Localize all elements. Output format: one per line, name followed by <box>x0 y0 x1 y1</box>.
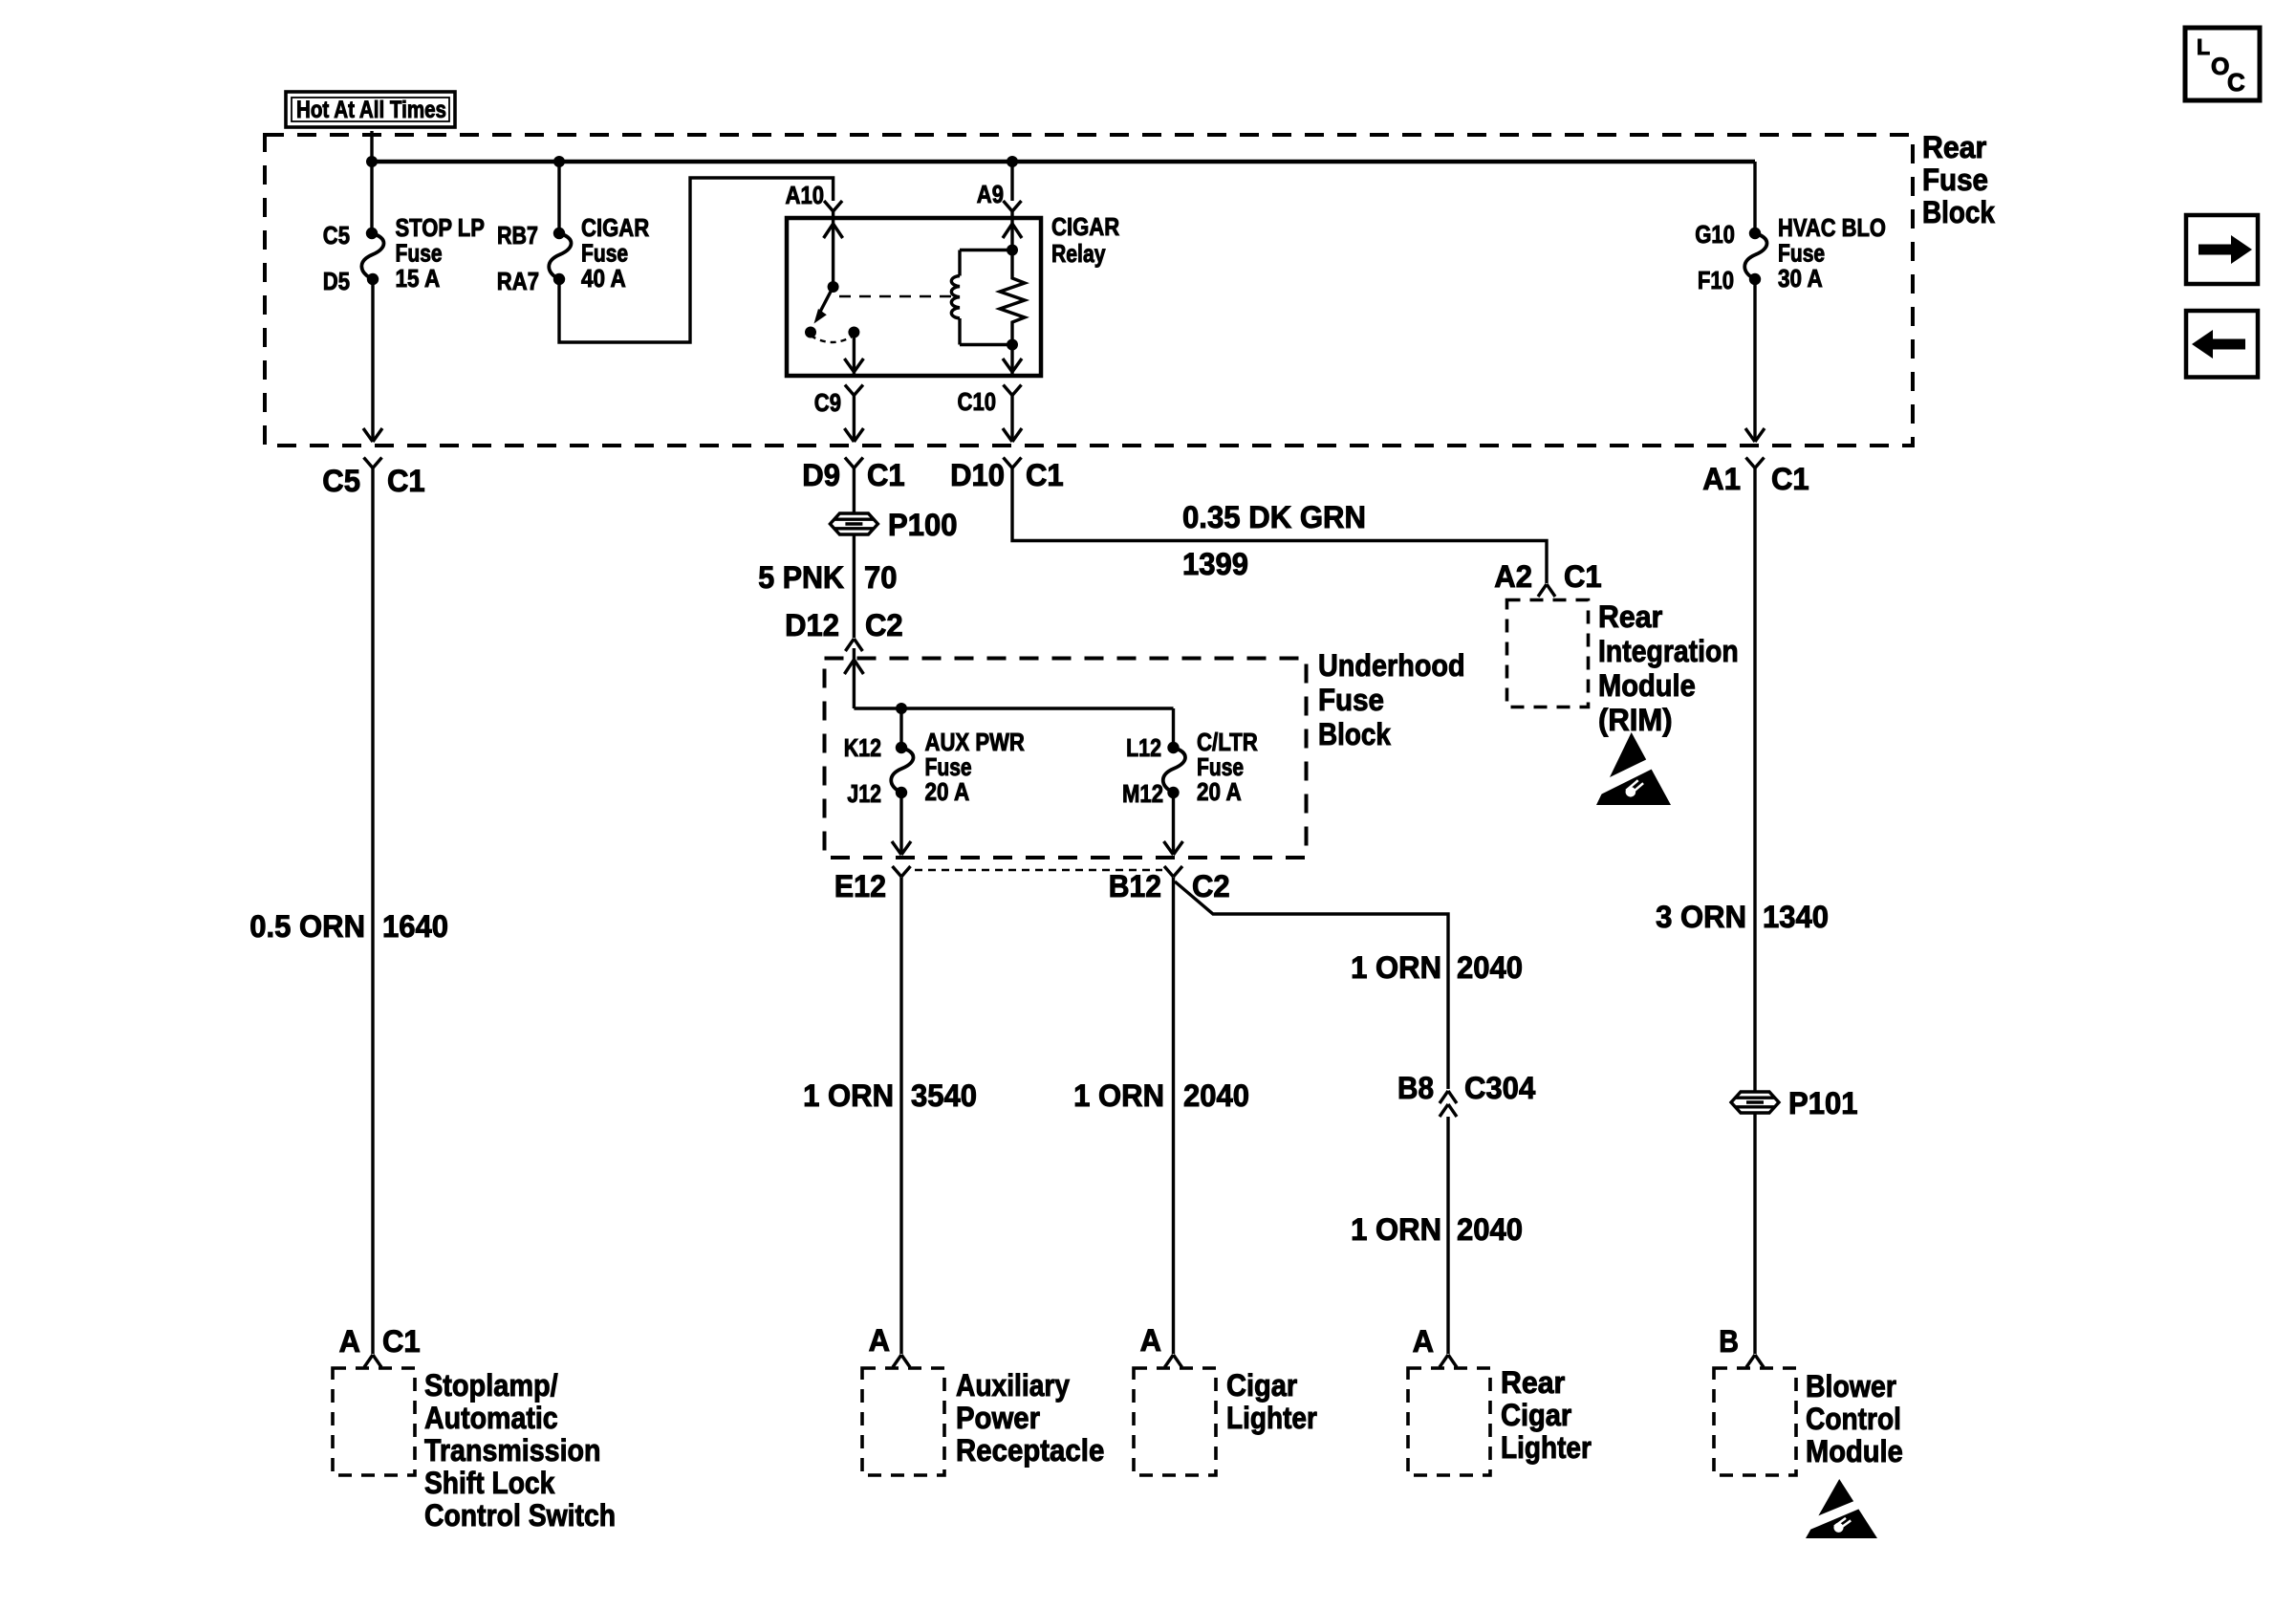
svg-text:D9: D9 <box>802 458 840 492</box>
svg-text:Cigar: Cigar <box>1501 1398 1571 1432</box>
svg-text:Fuse: Fuse <box>1922 163 1988 197</box>
svg-text:Module: Module <box>1598 668 1696 703</box>
connector C1 row: A1 terminal <box>1746 458 1756 468</box>
arrow: exit Rear Fuse Block (A1 column) <box>1745 428 1755 442</box>
svg-text:L12: L12 <box>1126 733 1161 762</box>
svg-text:Integration: Integration <box>1598 634 1739 668</box>
svg-text:Rear: Rear <box>1501 1365 1565 1400</box>
symbol: ESD sensitive device (RIM) <box>1594 732 1671 805</box>
svg-text:B: B <box>1719 1324 1739 1359</box>
svg-text:2040: 2040 <box>1457 950 1523 985</box>
fuse: CIGAR Fuse 40 A (RB7/RA7) <box>549 233 571 279</box>
connector: E12 terminal <box>893 866 902 877</box>
svg-text:30 A: 30 A <box>1778 264 1823 293</box>
wire: stub from Hot At All Times into fuse block <box>370 131 373 162</box>
component: Stoplamp switch connector row <box>339 1324 421 1359</box>
node: junction at AUX PWR fuse <box>896 703 907 714</box>
label: Underhood Fuse Block <box>1318 648 1465 751</box>
arrow: exit Rear Fuse Block (C9 column) <box>844 428 854 442</box>
wire label: 1 ORN 2040 (cigar lighter) <box>1073 1078 1249 1113</box>
wire: HVAC BLO fuse output down to block edge <box>1753 279 1756 442</box>
arrow: exit Rear Fuse Block (C5 column) <box>363 428 373 442</box>
relay internal: dashed throw arc <box>811 336 854 342</box>
boundary: dotted link between E12 and B12 <box>915 869 1162 871</box>
svg-text:Transmission: Transmission <box>424 1433 601 1468</box>
arrow: exit underhood block (B12) <box>1164 841 1174 855</box>
svg-text:Auxiliary: Auxiliary <box>956 1368 1070 1403</box>
power source label box: Hot At All Times <box>286 92 455 127</box>
wire: power bus inside Rear Fuse Block <box>372 160 1755 164</box>
svg-text:0.5 ORN: 0.5 ORN <box>249 909 365 944</box>
svg-text:Fuse: Fuse <box>1318 683 1384 717</box>
label: AUX PWR Fuse 20 A <box>925 728 1026 806</box>
connector: A10 terminal <box>824 201 834 211</box>
wire: AUX PWR output to block edge <box>899 793 902 855</box>
svg-text:HVAC BLO: HVAC BLO <box>1778 213 1886 242</box>
svg-text:D12: D12 <box>785 608 839 642</box>
svg-text:1399: 1399 <box>1182 547 1248 581</box>
svg-text:Fuse: Fuse <box>581 239 628 268</box>
svg-text:C5: C5 <box>322 464 360 498</box>
svg-text:A: A <box>339 1324 360 1359</box>
svg-text:Fuse: Fuse <box>1778 239 1825 268</box>
arrow: exit Rear Fuse Block (C10 column) <box>1003 428 1012 442</box>
wire: B12 column 1 ORN 2040 down to cigar lighter <box>1172 878 1175 1355</box>
svg-text:Receptacle: Receptacle <box>956 1433 1104 1468</box>
wire: bus drop to CIGAR fuse <box>557 162 560 233</box>
label: Stoplamp/Automatic Transmission Shift Lock Control Switch <box>424 1368 616 1533</box>
label: HVAC BLO Fuse 30 A <box>1778 213 1886 293</box>
splice P100 <box>830 513 877 534</box>
svg-text:Fuse: Fuse <box>396 239 443 268</box>
relay internal: coil L1 <box>951 276 960 318</box>
svg-text:C1: C1 <box>1564 559 1602 594</box>
icon: back arrow box <box>2186 311 2258 378</box>
relay internal: switch pivot node <box>828 281 839 293</box>
svg-text:C1: C1 <box>1771 462 1809 496</box>
wire: C9 down to block edge <box>853 396 856 443</box>
wire: CIGAR fuse output jog to relay pin A10 <box>559 178 834 342</box>
arrow: exit underhood block (E12) <box>892 841 901 855</box>
svg-text:3 ORN: 3 ORN <box>1656 900 1746 934</box>
svg-text:Stoplamp/: Stoplamp/ <box>424 1368 558 1403</box>
relay internal: coil branch wires <box>960 249 1012 251</box>
svg-text:A: A <box>1413 1324 1434 1359</box>
relay internal: switch contact nodes <box>805 327 816 338</box>
svg-text:P100: P100 <box>888 508 958 542</box>
connector C1 row: C5 terminal <box>364 458 374 468</box>
wire: D9 to splice P100 <box>853 468 856 514</box>
label: Blower Control Module <box>1806 1369 1903 1469</box>
svg-text:Rear: Rear <box>1922 130 1986 164</box>
svg-text:CIGAR: CIGAR <box>581 213 649 242</box>
svg-text:Rear: Rear <box>1598 599 1662 634</box>
wire: bus end drop to HVAC BLO fuse <box>1753 162 1756 233</box>
splice P101 <box>1731 1092 1779 1113</box>
svg-text:P101: P101 <box>1788 1086 1858 1120</box>
connector: A9 terminal <box>1004 201 1013 211</box>
connector C1 row: D9 terminal <box>845 458 855 468</box>
svg-text:D10: D10 <box>950 458 1005 492</box>
svg-text:J12: J12 <box>847 779 881 808</box>
svg-text:Cigar: Cigar <box>1226 1368 1297 1403</box>
svg-text:CIGAR: CIGAR <box>1051 212 1119 241</box>
svg-text:C2: C2 <box>1192 869 1230 903</box>
svg-text:20 A: 20 A <box>1197 777 1242 806</box>
svg-text:K12: K12 <box>844 733 881 762</box>
wire label: 3 ORN 1340 <box>1656 900 1829 934</box>
svg-text:Lighter: Lighter <box>1501 1430 1592 1465</box>
wire: bus drop to STOP LP fuse <box>370 162 373 233</box>
svg-text:C1: C1 <box>387 464 425 498</box>
wire: A1 column down to splice P101 <box>1753 468 1756 1093</box>
connector: D12/C2 into Underhood Fuse Block <box>785 608 903 642</box>
wire: C304 down to rear cigar lighter <box>1446 1117 1449 1354</box>
wire: D12 feed into underhood block <box>853 648 856 708</box>
svg-text:1 ORN: 1 ORN <box>803 1078 894 1113</box>
relay internal: coil top node <box>1007 245 1018 256</box>
wire label: 1 ORN 2040 (upper rear branch) <box>1351 950 1523 985</box>
svg-text:1 ORN: 1 ORN <box>1351 950 1441 985</box>
svg-text:G10: G10 <box>1695 220 1735 249</box>
relay internal: C10 output wire and arrow <box>1010 345 1013 377</box>
icon: LOC reference box <box>2185 28 2260 100</box>
wire: underhood internal feed bus <box>854 707 1173 709</box>
svg-text:1 ORN: 1 ORN <box>1073 1078 1164 1113</box>
label: C/LTR Fuse 20 A <box>1197 728 1258 806</box>
wire: bus drop to relay pin A9 <box>1010 162 1013 201</box>
wire label: 1 ORN 3540 <box>803 1078 977 1113</box>
svg-text:C1: C1 <box>1026 458 1064 492</box>
label: Rear Integration Module (RIM) <box>1598 599 1739 737</box>
fuse: AUX PWR Fuse 20 A (K12/J12) <box>891 748 913 793</box>
relay internal: coil bottom node <box>1007 339 1018 351</box>
svg-text:A1: A1 <box>1702 462 1741 496</box>
connector C1 row: D10 terminal <box>1004 458 1013 468</box>
wire label: 5 PNK 70 <box>758 560 897 595</box>
wire: left column 0.5 ORN 1640 down to stoplamp switch <box>371 468 374 1354</box>
svg-text:5 PNK: 5 PNK <box>758 560 844 595</box>
label: Rear Cigar Lighter <box>1501 1365 1592 1465</box>
wire: C/LTR output to block edge <box>1172 793 1175 855</box>
svg-text:C304: C304 <box>1464 1071 1535 1105</box>
svg-text:C9: C9 <box>814 388 841 417</box>
svg-text:A10: A10 <box>786 181 825 209</box>
svg-text:C5: C5 <box>323 221 350 250</box>
fuse: HVAC BLO Fuse 30 A (G10/F10) <box>1744 233 1766 279</box>
wire: A9 into relay box <box>1010 211 1013 218</box>
svg-text:RB7: RB7 <box>497 221 538 250</box>
svg-text:Power: Power <box>956 1401 1040 1435</box>
wire: branch from B12 to rear cigar lighter <box>1175 881 1448 1089</box>
wire: P100 down to D12 <box>853 534 856 639</box>
svg-text:2040: 2040 <box>1457 1212 1523 1247</box>
svg-text:15 A: 15 A <box>396 264 441 293</box>
connector: B12/C2 terminal <box>1164 866 1174 877</box>
relay internal: switch arm with arrowhead <box>820 287 834 313</box>
svg-text:3540: 3540 <box>911 1078 977 1113</box>
wire label: 0.5 ORN 1640 <box>249 909 448 944</box>
svg-text:A9: A9 <box>977 180 1004 208</box>
component: Stoplamp/Shift Lock Control Switch dashed box <box>333 1368 415 1475</box>
label: STOP LP Fuse 15 A <box>396 213 485 293</box>
label: Auxiliary Power Receptacle <box>956 1368 1104 1468</box>
relay internal: switch output wire and arrow <box>853 333 856 377</box>
node: bus junction at CIGAR fuse <box>553 156 565 167</box>
wire: P101 down to blower control module <box>1753 1113 1756 1355</box>
arrow: entering underhood block <box>844 660 854 674</box>
wire: E12 column 1 ORN 3540 down to receptacle <box>899 878 902 1355</box>
connector: A2/C1 into RIM <box>1494 559 1601 594</box>
svg-text:C2: C2 <box>865 608 903 642</box>
connector: C10 terminal below relay <box>1004 385 1013 396</box>
svg-text:B12: B12 <box>1109 869 1161 903</box>
label: Rear Fuse Block <box>1922 130 1995 229</box>
svg-text:1 ORN: 1 ORN <box>1351 1212 1441 1247</box>
svg-text:D5: D5 <box>323 267 350 295</box>
component: Auxiliary Power Receptacle dashed box <box>862 1368 944 1475</box>
svg-text:L: L <box>2197 34 2210 59</box>
svg-text:Module: Module <box>1806 1434 1903 1469</box>
svg-text:1640: 1640 <box>382 909 448 944</box>
svg-text:A: A <box>1140 1323 1161 1358</box>
relay: CIGAR Relay box outline <box>787 218 1041 376</box>
svg-text:A: A <box>869 1323 890 1358</box>
svg-text:Relay: Relay <box>1051 239 1106 268</box>
connector: C9 terminal below relay <box>845 385 855 396</box>
wire: drop to AUX PWR fuse <box>899 708 902 748</box>
label: Cigar Lighter <box>1226 1368 1317 1435</box>
icon: forward arrow box <box>2186 215 2258 284</box>
fuse: C/LTR Fuse 20 A (L12/M12) <box>1163 748 1185 793</box>
svg-text:C1: C1 <box>382 1324 421 1359</box>
symbol: ESD sensitive device (Blower Control Module) <box>1804 1479 1877 1538</box>
svg-text:Block: Block <box>1922 195 1995 229</box>
svg-text:E12: E12 <box>834 869 886 903</box>
wire: STOP LP fuse output down to block edge <box>371 279 374 442</box>
svg-text:Automatic: Automatic <box>424 1401 558 1435</box>
svg-text:Shift Lock: Shift Lock <box>424 1466 554 1500</box>
svg-text:2040: 2040 <box>1183 1078 1249 1113</box>
wire: drop to C/LTR fuse <box>1172 708 1175 748</box>
wire: D10 dark green to RIM <box>1012 468 1547 583</box>
node: bus junction at STOP LP fuse <box>366 156 378 167</box>
svg-text:RA7: RA7 <box>497 267 539 295</box>
label: CIGAR Relay <box>1051 212 1119 268</box>
connector: B8/C304 in-line connector <box>1397 1071 1535 1105</box>
svg-text:0.35 DK GRN: 0.35 DK GRN <box>1182 500 1366 534</box>
svg-text:B8: B8 <box>1397 1071 1434 1105</box>
underhood fuse block: dashed outline <box>825 659 1307 859</box>
svg-text:C1: C1 <box>867 458 905 492</box>
module: Rear Integration Module dashed box <box>1507 600 1589 707</box>
svg-text:M12: M12 <box>1122 779 1163 808</box>
svg-text:C10: C10 <box>958 387 997 416</box>
svg-text:1340: 1340 <box>1763 900 1829 934</box>
wire label: 0.35 DK GRN 1399 <box>1182 500 1366 581</box>
svg-text:STOP LP: STOP LP <box>396 213 485 242</box>
svg-text:Hot At All Times: Hot At All Times <box>296 97 446 123</box>
svg-text:Blower: Blower <box>1806 1369 1896 1403</box>
node: bus junction at A9 <box>1007 156 1018 167</box>
component: Rear Cigar Lighter dashed box <box>1408 1368 1490 1475</box>
wire: A10 into relay box <box>832 211 834 218</box>
svg-text:C: C <box>2227 68 2245 97</box>
frame: Rear Fuse Block dashed outline <box>265 135 1913 446</box>
relay internal: A10 pin wire and arrow <box>832 218 834 287</box>
svg-text:Control: Control <box>1806 1402 1901 1436</box>
wire label: 1 ORN 2040 (lower rear branch) <box>1351 1212 1523 1247</box>
svg-text:Lighter: Lighter <box>1226 1401 1317 1435</box>
relay internal: resistor R1 <box>1000 250 1025 345</box>
svg-text:40 A: 40 A <box>581 264 626 293</box>
svg-text:70: 70 <box>864 560 898 595</box>
component: Cigar Lighter dashed box <box>1134 1368 1216 1475</box>
component: Blower Control Module dashed box <box>1714 1368 1796 1475</box>
wire: C10 down to block edge <box>1010 396 1013 443</box>
svg-text:A2: A2 <box>1494 559 1532 594</box>
relay internal: A9 pin wire and arrow <box>1010 218 1013 250</box>
svg-text:Underhood: Underhood <box>1318 648 1465 683</box>
label: CIGAR Fuse 40 A <box>581 213 649 293</box>
fuse: STOP LP Fuse 15 A (C5/D5) <box>361 233 383 279</box>
svg-text:(RIM): (RIM) <box>1598 703 1673 737</box>
svg-text:Control Switch: Control Switch <box>424 1498 616 1533</box>
svg-text:Block: Block <box>1318 717 1391 751</box>
svg-text:20 A: 20 A <box>925 777 970 806</box>
svg-text:F10: F10 <box>1698 266 1734 294</box>
relay internal: dashed actuation link to coil <box>839 295 956 297</box>
